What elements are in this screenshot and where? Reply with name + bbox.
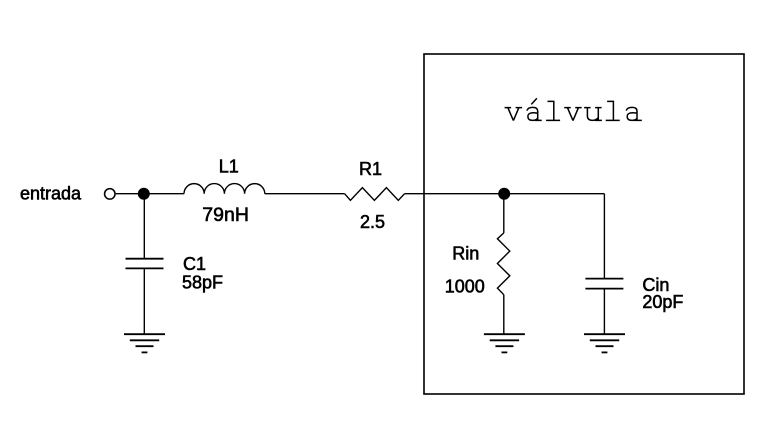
value 58pF [182,273,223,293]
glyph a acute [527,98,542,120]
wire node B to Cin branch [504,193,604,195]
glyph l [606,101,620,120]
glyph l [546,101,560,120]
svg-text:58pF: 58pF [182,273,223,293]
svg-text:L1: L1 [219,157,239,177]
svg-text:79nH: 79nH [202,204,249,226]
capacitor Cin [585,279,623,289]
glyph v [564,108,582,121]
glyph u [584,108,602,121]
wire node A down to C1 [143,194,145,259]
label Cin [642,275,669,295]
ground (C1) [124,334,165,352]
value 1000 [445,277,485,297]
wire Rin to ground [503,295,505,335]
label R1 [359,159,382,179]
node A (junction) [138,188,150,200]
node B (junction) [498,188,510,200]
ground (Cin) [584,334,625,352]
value 2.5 [360,212,385,232]
resistor R1 [345,188,405,201]
ground (Rin) [484,334,525,352]
svg-text:2.5: 2.5 [360,212,385,232]
box valvula [424,54,744,394]
label C1 [183,254,206,274]
wire down to Cin [603,194,605,279]
label Rin [452,244,479,264]
label entrada [20,183,82,203]
wire terminal to node A [116,193,144,195]
svg-text:C1: C1 [183,254,206,274]
label L1 [219,157,239,177]
wire node A to L1 [144,193,184,195]
wire Cin to ground [603,289,605,335]
wire C1 to ground [143,268,145,334]
glyph a [626,107,642,120]
svg-text:entrada: entrada [20,183,82,203]
svg-text:Rin: Rin [452,244,479,264]
svg-text:1000: 1000 [445,277,485,297]
resistor Rin [497,233,509,295]
value 20pF [642,292,683,312]
wire L1 to R1 [265,193,345,195]
glyph v [505,108,522,121]
value 79nH [202,204,249,226]
inductor L1 [184,184,265,194]
capacitor C1 [126,259,164,269]
svg-text:20pF: 20pF [642,292,683,312]
label valvula (hand-drawn courier-style glyphs) [505,98,642,120]
svg-text:R1: R1 [359,159,382,179]
wire node B down to Rin [503,194,505,233]
wire R1 to node B [405,193,505,195]
input terminal (open circle) [105,189,116,200]
